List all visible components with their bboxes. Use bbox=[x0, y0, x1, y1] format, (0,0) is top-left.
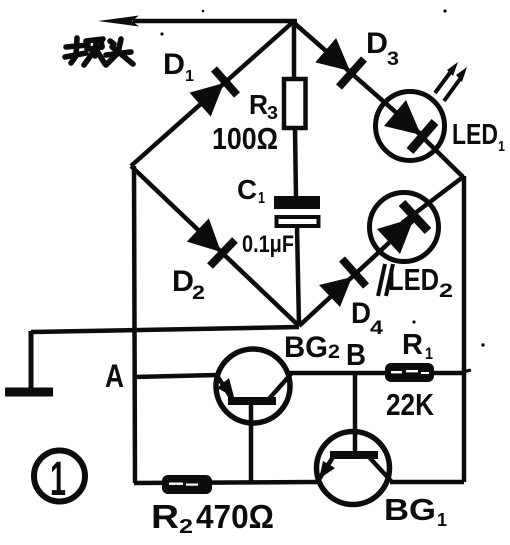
svg-text:3: 3 bbox=[267, 103, 278, 123]
svg-text:BG: BG bbox=[384, 492, 436, 527]
svg-text:BG: BG bbox=[284, 331, 328, 364]
svg-text:4: 4 bbox=[370, 318, 384, 339]
LED2 light rays bbox=[378, 264, 393, 296]
svg-text:B: B bbox=[346, 337, 366, 372]
svg-text:470Ω: 470Ω bbox=[196, 498, 274, 535]
label R2 470 ohm bbox=[151, 498, 274, 538]
wire left vertical rail bbox=[134, 166, 135, 483]
svg-text:0.1μF: 0.1μF bbox=[242, 231, 294, 258]
LED1 light rays bbox=[435, 62, 467, 101]
label LED1 bbox=[452, 119, 505, 155]
capacitor C1 bbox=[274, 196, 320, 226]
svg-text:C: C bbox=[237, 174, 257, 205]
svg-text:22K: 22K bbox=[386, 387, 435, 422]
svg-text:D: D bbox=[163, 48, 185, 81]
wire node A to BG2 emitter bbox=[134, 375, 217, 377]
svg-text:R: R bbox=[249, 89, 268, 120]
wire ground riser bbox=[29, 331, 34, 390]
label D1 bbox=[163, 48, 194, 85]
label BG1 bbox=[384, 492, 447, 530]
speck dot bbox=[160, 32, 163, 35]
svg-text:2: 2 bbox=[179, 516, 193, 538]
wire LED2 to right corner bbox=[402, 177, 463, 223]
svg-text:R: R bbox=[151, 498, 179, 535]
label 探头 probe bbox=[65, 38, 133, 65]
resistor R3 bbox=[284, 79, 306, 128]
label D4 bbox=[351, 297, 384, 339]
svg-text:3: 3 bbox=[387, 49, 399, 70]
label D2 bbox=[172, 265, 205, 304]
label R1 bbox=[402, 329, 433, 363]
diode D4 bbox=[319, 259, 366, 307]
wire R3 bottom lead bbox=[295, 129, 296, 198]
diode D2 bbox=[187, 218, 235, 266]
svg-text:1: 1 bbox=[185, 68, 194, 85]
LED LED1 bbox=[376, 92, 445, 161]
ground bbox=[5, 388, 53, 397]
svg-text:1: 1 bbox=[437, 510, 447, 530]
label 0.1uF bbox=[242, 231, 294, 258]
svg-text:D: D bbox=[351, 297, 371, 330]
LED LED2 bbox=[370, 193, 439, 262]
speck dot bbox=[412, 320, 415, 323]
svg-text:2: 2 bbox=[439, 281, 453, 302]
wire left node to bottom node diagonal bbox=[131, 166, 299, 326]
resistor R1 bbox=[385, 363, 434, 382]
svg-text:1: 1 bbox=[258, 190, 265, 207]
wire C1 bottom lead bbox=[297, 227, 299, 326]
wire right vertical rail bbox=[462, 176, 467, 482]
node R1 right rail junction bbox=[463, 370, 471, 372]
svg-text:2: 2 bbox=[192, 283, 205, 304]
svg-text:LED: LED bbox=[388, 262, 439, 297]
svg-text:R: R bbox=[402, 329, 423, 361]
svg-text:D: D bbox=[366, 27, 388, 60]
wire bottom rail right bbox=[390, 480, 464, 485]
wire probe arrow line bbox=[98, 16, 297, 27]
svg-text:D: D bbox=[172, 265, 194, 298]
diode D1 bbox=[190, 69, 238, 117]
svg-text:1: 1 bbox=[425, 344, 433, 363]
wire top node to left node diagonal bbox=[131, 22, 293, 166]
speck dot bbox=[481, 343, 484, 346]
node B bbox=[346, 337, 366, 372]
svg-text:1: 1 bbox=[50, 453, 66, 506]
label 22K bbox=[386, 387, 435, 422]
wire bottom rail left bbox=[134, 482, 317, 483]
wire bottom node to D4/LED2 diagonal bbox=[299, 216, 418, 326]
svg-text:A: A bbox=[105, 358, 124, 394]
wire ground line bbox=[31, 327, 299, 332]
svg-text:LED: LED bbox=[452, 119, 498, 151]
wire top node to D3/LED1 diagonal bbox=[293, 22, 424, 137]
wire LED1 to right corner bbox=[398, 113, 463, 177]
transistor BG1 bbox=[317, 373, 392, 505]
speck dot bbox=[202, 10, 205, 13]
wire BG2 collector to right rail through node B and R1 bbox=[290, 371, 464, 376]
speck dot bbox=[443, 9, 446, 12]
svg-text:100Ω: 100Ω bbox=[212, 121, 278, 156]
label R3 bbox=[249, 89, 278, 123]
diode D3 bbox=[315, 38, 364, 87]
wire R3 top lead bbox=[292, 22, 297, 80]
label BG2 bbox=[284, 331, 340, 364]
wire BG2 base lead bbox=[249, 404, 254, 483]
transistor BG2 bbox=[216, 349, 291, 423]
label D3 bbox=[366, 27, 399, 70]
node A bbox=[105, 358, 124, 394]
svg-text:1: 1 bbox=[498, 138, 505, 155]
label C1 bbox=[237, 174, 265, 207]
figure number 1 bbox=[34, 451, 85, 507]
label 100 ohm bbox=[212, 121, 278, 156]
svg-text:2: 2 bbox=[328, 342, 340, 363]
label LED2 bbox=[388, 262, 453, 302]
resistor R2 bbox=[162, 475, 212, 494]
